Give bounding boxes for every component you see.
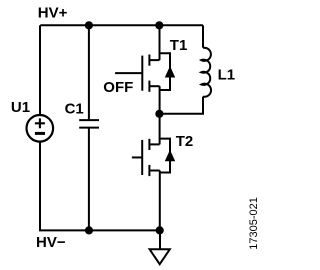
svg-text:L1: L1 [218, 67, 236, 84]
U1 plus sign [35, 118, 45, 128]
inductor L1 [201, 48, 211, 97]
svg-text:U1: U1 [11, 99, 30, 116]
node dot bottom rail / T2-ground [156, 226, 164, 234]
svg-text:HV+: HV+ [38, 5, 68, 22]
transistor T1 body arrow [165, 66, 175, 78]
wire left vertical lower + bottom rail HV- [40, 142, 160, 231]
svg-text:OFF: OFF [103, 79, 133, 96]
voltage source U1 circle [27, 115, 54, 142]
wire T1 drain from top rail [159, 25, 161, 60]
node dot top rail / C1 [85, 21, 93, 29]
node dot bottom rail / C1 [85, 226, 93, 234]
node dot top rail / T1 drain [155, 21, 163, 29]
transistor T2 channel top segment [148, 139, 150, 150]
transistor T1 channel bottom segment [148, 81, 150, 92]
node dot mid T1-T2 / L1 [155, 110, 163, 118]
transistor T1 channel top segment [148, 55, 150, 66]
transistor T2 drain stub [149, 143, 159, 145]
transistor T2 gate bar [141, 140, 143, 175]
transistor T1 drain stub [149, 59, 159, 61]
svg-text:HV−: HV− [36, 234, 66, 251]
wire T2 source to bottom rail [159, 171, 161, 231]
svg-text:C1: C1 [65, 101, 84, 118]
wire L1 bottom to mid node [159, 97, 203, 114]
svg-text:17305-021: 17305-021 [248, 197, 260, 250]
transistor T2 body diode path [160, 139, 170, 173]
transistor T2 channel bottom segment [148, 165, 150, 176]
svg-text:T1: T1 [170, 37, 188, 54]
transistor T2 gate lead [132, 156, 142, 158]
ground triangle [150, 249, 170, 264]
capacitor C1 top plate [79, 119, 99, 121]
ground stem [159, 230, 161, 249]
svg-text:T2: T2 [176, 133, 194, 150]
wire C1 branch lower [88, 129, 90, 231]
wire mid vertical T1 source to T2 drain [159, 86, 161, 144]
transistor T1 gate lead (OFF input) [115, 72, 142, 74]
transistor T2 source stub [149, 170, 159, 172]
wire left vertical upper (HV+ to U1) [39, 25, 41, 115]
transistor T1 gate bar [141, 56, 143, 91]
U1 minus sign [35, 132, 45, 135]
transistor T1 body diode path [160, 53, 171, 90]
wire right branch L1 top [202, 25, 204, 47]
wire top rail HV+ [40, 24, 203, 26]
transistor T1 source stub [149, 85, 159, 87]
transistor T2 body arrow [165, 150, 175, 162]
wire C1 branch upper [88, 25, 90, 119]
capacitor C1 bottom plate [79, 127, 99, 129]
